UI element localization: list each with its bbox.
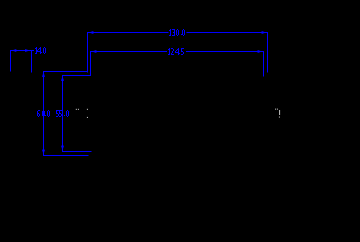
dimension D2 124.5 left extension line [90,51,92,76]
dimension D3 60.0 top arrowhead [42,72,45,77]
dimension D3 60.0 bottom extension line [43,155,89,157]
dimension D4 55.0 dim line [62,75,64,152]
dimension D4 text 55.0 [56,110,69,117]
dimension D3 60.0 bottom arrowhead [42,150,45,155]
dimension D5 14.0 left extension line [10,50,12,72]
dimension D2 124.5 dim line right segment [186,51,264,53]
stray gray dot A2 [78,109,79,110]
dimension D3 60.0 top extension line [43,71,88,73]
dimension D1 130.0 right extension line [267,32,269,73]
dimension D2 124.5 left arrowhead [92,50,97,53]
dimension D5 14.0 right arrowhead [25,49,30,52]
stray gray dot B2 [277,109,278,110]
dimension D5 14.0 right extension line [31,50,33,73]
dimension D4 55.0 top extension line [62,75,91,77]
dimension D1 130.0 dim line right segment [187,32,268,34]
stray gray dot B4 [279,117,280,118]
dimension D5 14.0 left arrowhead [12,49,16,52]
dimension D2 124.5 dim line left segment [91,51,168,53]
dimension D2 text 124.5 [168,48,184,55]
stray gray dot A3 [87,109,88,110]
dimension D2 124.5 right extension line [263,51,265,77]
stray gray dot B1 [275,109,276,110]
dimension D2 124.5 right arrowhead [258,50,263,53]
dimension D1 130.0 left arrowhead [89,31,94,34]
dimension D1 130.0 right arrowhead [262,31,267,34]
dimension D4 55.0 top arrowhead [61,76,64,81]
dimension D3 text 60.0 [37,110,50,117]
dimension D3 60.0 dim line [43,71,45,156]
dimension D1 130.0 left extension line [87,32,89,73]
stray gray bar B3 [279,110,280,115]
dimension D5 14.0 dim line [10,50,34,52]
dimension D4 55.0 bottom extension line [62,151,92,153]
stray gray dot A4 [87,117,88,118]
dimension D5 text 14.0 [35,47,46,54]
dimension D1 text 130.0 [169,29,185,36]
stray gray dot A1 [76,109,77,110]
dimension D1 130.0 dim line left segment [88,32,169,34]
dimension D4 55.0 bottom arrowhead [61,146,64,151]
